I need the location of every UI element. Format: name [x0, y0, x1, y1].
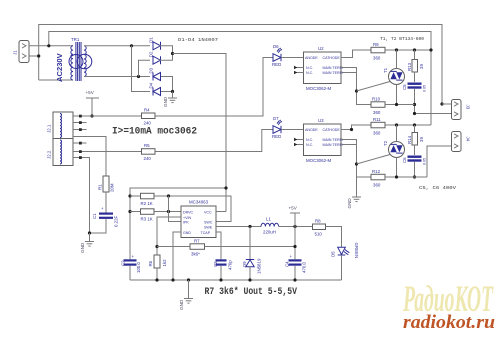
node neutral join	[429, 48, 432, 51]
LED D6	[272, 44, 282, 67]
svg-text:L1: L1	[266, 217, 271, 222]
svg-text:N.C.: N.C.	[306, 143, 313, 147]
wire T1 gate	[357, 82, 391, 92]
svg-text:1N5819: 1N5819	[257, 258, 262, 274]
svg-text:470p: 470p	[228, 260, 233, 270]
wire D1 D2 cathodes join	[159, 46, 173, 60]
wire SWE to L1	[216, 226, 261, 228]
svg-text:U3: U3	[318, 118, 324, 123]
svg-text:100.0: 100.0	[136, 261, 141, 273]
svg-text:3k6*: 3k6*	[191, 252, 200, 257]
wire J1 pin1 to transformer	[29, 45, 73, 47]
diode D1	[149, 37, 161, 50]
op-amp U3 optocoupler	[304, 118, 343, 163]
op-amp U2 optocoupler	[304, 46, 343, 91]
svg-text:MAIN TERM: MAIN TERM	[323, 71, 343, 75]
svg-text:360: 360	[373, 131, 381, 136]
svg-text:D7: D7	[273, 116, 279, 121]
wire mains outer loop	[39, 25, 442, 105]
svg-text:20M: 20M	[110, 183, 115, 192]
node T1 out	[413, 103, 416, 106]
svg-text:39: 39	[419, 137, 424, 142]
wire U2 cathode to R9	[341, 50, 371, 58]
wire C4 to rail	[294, 266, 296, 280]
svg-text:+5V: +5V	[86, 90, 95, 95]
node rail gnd drop	[187, 278, 190, 281]
node bridge AC2	[137, 75, 140, 78]
ground bridge	[163, 96, 177, 107]
ground C1	[80, 233, 94, 253]
svg-text:R10: R10	[372, 97, 381, 102]
wire output down to C4	[294, 227, 296, 260]
wire T2 out to J4 pin2	[427, 146, 452, 177]
capacitor C2	[121, 254, 142, 273]
svg-text:240: 240	[144, 156, 152, 161]
svg-text:470.0: 470.0	[302, 261, 307, 273]
svg-text:R4: R4	[144, 108, 150, 113]
svg-text:DRVC: DRVC	[183, 210, 194, 214]
svg-text:IPK: IPK	[183, 220, 189, 224]
svg-text:39: 39	[419, 64, 424, 69]
triac T1	[383, 50, 405, 105]
svg-text:R1: R1	[98, 184, 103, 190]
svg-text:D6: D6	[273, 44, 279, 49]
LED D5	[331, 243, 360, 259]
svg-text:AC230V: AC230V	[55, 52, 64, 82]
ground T2 section	[347, 197, 361, 209]
wire live to J3 J4	[442, 103, 452, 105]
wire D5 to rail	[341, 255, 343, 280]
wire J2 pin7 to ground	[73, 158, 90, 234]
svg-text:R5: R5	[144, 143, 150, 148]
node R14 top	[413, 123, 416, 126]
svg-text:C5: C5	[402, 84, 407, 90]
svg-text:RED: RED	[272, 134, 281, 139]
wire U3 cathode to R11	[341, 125, 371, 130]
svg-text:T1: T1	[383, 67, 388, 73]
resistor R6	[148, 255, 167, 268]
node C6 bottom	[413, 175, 416, 178]
wire GND pin down	[173, 232, 181, 280]
ic MC34063 U1	[181, 200, 216, 238]
node R3 right	[167, 210, 170, 213]
resistor R7	[190, 239, 205, 257]
wire C1 to ground	[90, 219, 107, 233]
svg-text:N.C.: N.C.	[306, 71, 313, 75]
svg-text:J3: J3	[466, 105, 471, 110]
node +5V output	[293, 225, 296, 228]
svg-text:CATHODE: CATHODE	[323, 128, 341, 132]
svg-text:TCAP: TCAP	[201, 231, 211, 235]
pin U2 NC1	[294, 66, 304, 69]
svg-text:1k2: 1k2	[162, 259, 167, 267]
wire R1 to C1	[105, 192, 107, 213]
svg-text:C6: C6	[402, 157, 407, 163]
wire ground rail	[130, 279, 342, 281]
resistor R5	[142, 143, 156, 161]
wire R2 left	[130, 195, 141, 197]
wire mains inner loop	[49, 32, 431, 126]
node J3 pin1	[440, 102, 443, 105]
node catch diode top	[248, 225, 251, 228]
wire J1 pin2 to outer loop	[29, 55, 39, 57]
svg-text:R7: R7	[194, 239, 200, 244]
svg-text:J2.2: J2.2	[47, 150, 52, 159]
wire R6 to rail	[156, 268, 158, 280]
node T1 MT2	[395, 103, 398, 106]
node R3 left	[128, 210, 131, 213]
node rail D9	[248, 278, 251, 281]
resistor R14	[407, 125, 424, 155]
capacitor C5	[402, 83, 427, 93]
capacitor C4	[285, 254, 307, 273]
svg-text:+: +	[101, 206, 104, 211]
wire R4 to D6	[155, 58, 273, 117]
wire R12 right	[385, 176, 427, 178]
svg-text:R13: R13	[407, 62, 412, 71]
resistor R1	[98, 176, 115, 192]
node rail IC gnd	[171, 278, 174, 281]
connector J1	[13, 41, 30, 63]
svg-text:C1: C1	[92, 213, 97, 219]
svg-text:T1, T2 BT134-600: T1, T2 BT134-600	[380, 36, 424, 42]
wire secondary top to bridge	[84, 45, 150, 47]
node T1 gate	[355, 89, 358, 92]
wire R10 right	[385, 104, 415, 106]
svg-text:SWC: SWC	[204, 220, 213, 224]
wire R2 to SWC	[154, 196, 231, 222]
svg-text:RED: RED	[272, 62, 281, 67]
svg-text:510: 510	[315, 232, 323, 237]
svg-text:R6: R6	[148, 260, 153, 266]
wire bridge plus top rail	[130, 188, 226, 259]
svg-text:D1-D4 1N4007: D1-D4 1N4007	[178, 37, 218, 43]
wire R8 to D5	[326, 227, 342, 248]
node +5V R4 J2	[90, 114, 93, 117]
svg-text:MOC3062-M: MOC3062-M	[306, 158, 331, 163]
svg-text:360: 360	[373, 183, 381, 188]
svg-text:+: +	[132, 254, 135, 259]
svg-text:D5: D5	[331, 251, 336, 257]
wire U2 MT pins join	[341, 68, 371, 105]
svg-text:T2: T2	[383, 140, 388, 146]
wire C2 to rail	[129, 266, 131, 280]
svg-text:0.05: 0.05	[423, 158, 427, 165]
svg-text:VCC: VCC	[204, 210, 212, 214]
svg-text:GND: GND	[80, 242, 85, 253]
inductor L1	[261, 217, 279, 235]
node C5 out	[413, 112, 416, 115]
node rail R6	[155, 278, 158, 281]
svg-text:MAIN TERM: MAIN TERM	[323, 143, 343, 147]
svg-text:360: 360	[373, 56, 381, 61]
svg-text:GND: GND	[163, 96, 168, 107]
svg-text:N.C.: N.C.	[306, 138, 313, 142]
wire bridge minus to ground	[172, 92, 174, 98]
svg-text:GND: GND	[183, 231, 191, 235]
wire R11 to neutral end	[385, 124, 431, 126]
node bridge AC1	[130, 44, 133, 47]
wire J2 pin3 stub	[73, 129, 87, 131]
wire feedback to R7 to output	[157, 246, 190, 248]
wire R9 to neutral	[385, 49, 431, 51]
resistor R3	[141, 209, 155, 222]
svg-text:+5V: +5V	[289, 206, 298, 211]
svg-text:0.22F: 0.22F	[114, 215, 119, 227]
svg-text:220uH: 220uH	[263, 230, 276, 235]
resistor R8	[313, 219, 326, 237]
wire C5 to J3 pin2	[415, 89, 452, 114]
node R2 left	[128, 194, 131, 197]
svg-text:SWE: SWE	[204, 225, 213, 229]
svg-text:MOC3062-M: MOC3062-M	[306, 86, 331, 91]
capacitor C6	[402, 156, 427, 166]
resistor R2	[141, 193, 155, 206]
connector J4	[452, 132, 471, 152]
power +5V output	[289, 206, 301, 227]
transformer TR1	[55, 37, 92, 82]
svg-text:ANODE: ANODE	[305, 56, 318, 60]
wire +VIN to divider	[157, 217, 181, 255]
svg-text:TR1: TR1	[71, 37, 80, 42]
wire C3 to rail	[220, 266, 222, 280]
pin U3 NC1	[294, 138, 304, 141]
diode D9 catch	[242, 227, 262, 281]
svg-text:R11: R11	[373, 117, 381, 122]
svg-text:I>=10mA moc3062: I>=10mA moc3062	[112, 126, 197, 138]
svg-text:R12: R12	[372, 169, 381, 174]
wire D3 D4 join	[161, 77, 173, 92]
wire R5 to D7	[155, 130, 273, 152]
power +5V left	[86, 90, 100, 116]
node R13 top	[413, 48, 416, 51]
resistor R9	[371, 42, 385, 61]
svg-text:MAIN TERM: MAIN TERM	[323, 66, 343, 70]
pin U2 NC2	[294, 71, 304, 74]
svg-text:radiokot.ru: radiokot.ru	[403, 312, 495, 333]
wire AC2 to D2 anode	[139, 60, 151, 76]
svg-text:N.C.: N.C.	[306, 66, 313, 70]
node T2 gate	[355, 162, 358, 165]
triac T2	[383, 125, 405, 177]
node T1 MT1	[395, 48, 398, 51]
svg-text:0.05: 0.05	[423, 85, 427, 92]
resistor R10	[371, 97, 385, 116]
wire J2 pin6 to R5	[73, 151, 142, 153]
svg-text:MC34063: MC34063	[189, 200, 209, 205]
wire TCAP to C3	[216, 232, 221, 259]
wire J2 pin5 stub	[73, 142, 87, 144]
svg-text:J4: J4	[466, 137, 471, 142]
wire R3 to DRVC	[130, 211, 141, 213]
wire VCC to bridge plus	[216, 211, 226, 213]
node output feedback	[293, 245, 296, 248]
svg-text:J2.1: J2.1	[47, 124, 52, 133]
svg-text:R2 1K: R2 1K	[141, 201, 153, 206]
svg-text:GND: GND	[179, 299, 184, 310]
node R2 DRVC branch	[167, 194, 170, 197]
node bridge plus VCC	[224, 186, 227, 189]
wire J2 pin2 stub	[73, 122, 87, 124]
wire J2 pin1 to R4	[73, 115, 142, 117]
node rail C3	[219, 278, 222, 281]
wire L1 to R8	[279, 226, 313, 228]
resistor R12	[371, 169, 385, 188]
wire J2 pin4 to R1	[73, 137, 106, 177]
svg-text:J1: J1	[13, 50, 18, 55]
wire C6 down	[414, 162, 416, 177]
wire D7 to U3 anode	[281, 129, 304, 131]
svg-text:R8: R8	[315, 219, 321, 224]
LED D7	[272, 116, 282, 139]
node feedback	[155, 245, 158, 248]
svg-text:R9: R9	[373, 42, 379, 47]
diode D2	[149, 51, 161, 64]
svg-text:R7 3k6* Uout 5-5,5V: R7 3k6* Uout 5-5,5V	[205, 286, 298, 297]
resistor R13	[407, 50, 424, 82]
wire DRVC branch to IPK	[169, 196, 182, 222]
wire secondary bottom to D3	[84, 76, 150, 78]
svg-text:R3 1K: R3 1K	[141, 217, 153, 222]
wire D6 to U2 anode	[281, 57, 304, 59]
connector J2	[47, 112, 74, 166]
diode D3	[149, 67, 161, 80]
wire T2 gate	[357, 155, 391, 165]
capacitor C3	[213, 259, 233, 270]
watermark radiokot	[402, 279, 495, 333]
wire bridge plus rail	[173, 54, 227, 212]
node T2 MT1	[395, 123, 398, 126]
svg-text:MAIN TERM: MAIN TERM	[323, 138, 343, 142]
resistor R4	[142, 108, 156, 126]
node rail C4	[293, 278, 296, 281]
svg-text:360: 360	[373, 110, 381, 115]
svg-text:CATHODE: CATHODE	[323, 56, 341, 60]
connector J3	[452, 100, 471, 120]
node bridge plus	[171, 52, 174, 55]
wire transformer primary bottom	[39, 79, 73, 81]
node C1 ground	[88, 231, 91, 234]
svg-text:R14: R14	[407, 135, 412, 144]
capacitor C1	[92, 206, 119, 227]
svg-text:ANODE: ANODE	[305, 128, 318, 132]
node U3 cathode	[350, 128, 353, 131]
svg-text:U2: U2	[318, 46, 324, 51]
node J1 pin1 / inner loop	[47, 44, 50, 47]
svg-text:+VIN: +VIN	[183, 216, 191, 220]
svg-text:C5, C6 400V: C5, C6 400V	[419, 185, 456, 191]
svg-text:GND: GND	[347, 198, 352, 209]
node T2 MT2	[395, 175, 398, 178]
ground main	[179, 280, 193, 310]
node J1 pin2	[37, 54, 40, 57]
pin U3 NC2	[294, 143, 304, 146]
node bridge minus	[171, 90, 174, 93]
resistor R11	[371, 117, 385, 136]
svg-text:+: +	[290, 254, 293, 259]
wire U3 MT pins join	[341, 140, 371, 178]
wire AC1 to D4 anode	[132, 46, 151, 92]
wire U3 MT to ground	[356, 177, 358, 197]
svg-text:GREEN: GREEN	[354, 243, 359, 259]
diode D4	[149, 82, 161, 95]
